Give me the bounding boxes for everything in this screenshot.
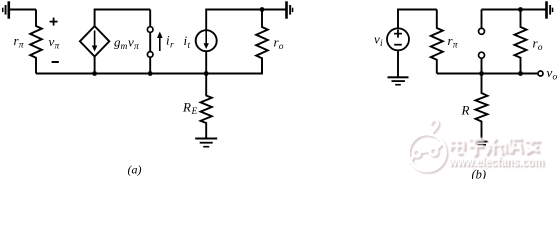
ground G2 top-right (sideways) [285,1,293,18]
svg-text:i: i [380,39,383,49]
source v_i circle [387,28,409,50]
label gm v_pi [114,35,139,53]
arrow i_r [157,32,163,52]
label r_o (a) [274,35,284,53]
svg-text:π: π [453,41,458,51]
svg-text:o: o [538,43,543,53]
label r_pi (b) [448,33,458,51]
ground G1 top-left (sideways) [2,1,10,18]
svg-text:R: R [182,100,191,115]
label r_pi (a) [14,33,24,51]
junction dot R_E top [204,71,209,76]
resistor R_E [201,74,212,139]
port circle bottom (b) [479,52,485,58]
label i_r [166,33,174,51]
svg-text:o: o [553,73,557,83]
label v_o [547,65,557,83]
current source i_t circle [196,30,217,51]
wire v_i top [398,10,437,29]
watermark url text [448,154,545,170]
port circle top (b) [479,28,485,34]
wire current source bottom [205,51,207,73]
arrow inside current source [204,31,209,50]
watermark chinese characters (drawn) [451,138,542,157]
bottom wire (a) [36,58,262,73]
junction dot diamond bottom [92,71,97,76]
junction dot r_o bottom (b) [518,71,523,76]
junction dot r_o top (b) [518,7,523,12]
label R_E [182,100,198,118]
svg-text:π: π [134,42,139,52]
ground G5 top-right (b) [545,1,553,18]
label v_pi [49,34,60,52]
label v_i [374,32,383,50]
wire diamond top [95,10,151,27]
label minus (v_pi) [52,61,59,63]
plus inside v_i [394,30,402,38]
svg-text:m: m [121,42,128,52]
svg-text:π: π [55,42,60,52]
ground G4 below v_i [388,76,409,85]
output terminal circle v_o [538,71,543,76]
label + (v_pi) [50,18,58,26]
junction dot port bottom [148,71,153,76]
svg-text:www.elecfans.com: www.elecfans.com [448,154,544,169]
resistor r_pi (b) [431,10,443,74]
wire v_i bottom [397,50,399,76]
label r_o (b) [533,36,543,54]
minus inside v_i [394,44,402,46]
svg-text:π: π [19,41,24,51]
resistor R (b) [476,74,488,142]
ground G3 below R_E [195,138,217,148]
resistor r_pi (a) [30,10,42,74]
bottom wire (b) [437,73,538,75]
top wire (b) right [482,9,546,11]
svg-text:t: t [188,41,191,51]
dependent source gm*vpi (diamond) [80,26,109,56]
ground G6 below R [475,141,489,149]
junction dot r_o top [260,7,265,12]
resistor r_o (a) [256,10,268,74]
wire current source top to ground right [206,10,285,31]
port terminal wires (b) [481,10,483,74]
wire diamond bottom [94,57,96,74]
junction dot R top [479,71,484,76]
port terminal circle bottom (a) [147,52,153,58]
arrow inside diamond [92,31,98,52]
svg-text:r: r [170,41,174,51]
port terminal wires (a) [149,10,151,74]
svg-text:(a): (a) [128,163,142,177]
resistor r_o (b) [515,10,527,74]
svg-text:E: E [191,107,198,117]
svg-text:o: o [279,42,284,52]
port terminal circle top (a) [147,27,153,33]
svg-text:R: R [461,103,470,118]
watermark logo circle [409,120,448,173]
wire top-left [10,9,36,11]
label i_t (source) [184,33,191,51]
